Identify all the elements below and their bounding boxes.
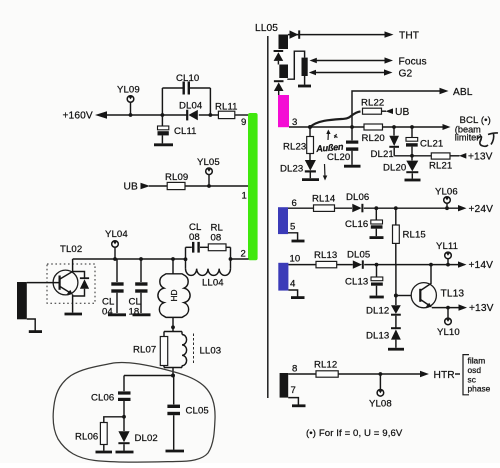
capacitor CL16 bbox=[345, 206, 384, 237]
svg-text:RL12: RL12 bbox=[314, 360, 337, 371]
svg-text:DL13: DL13 bbox=[366, 331, 389, 342]
svg-text:CL13: CL13 bbox=[345, 277, 368, 288]
testpoint YL08 bbox=[369, 372, 392, 409]
+14V output bbox=[458, 260, 493, 271]
ground bbox=[29, 330, 42, 333]
capacitor CL05 bbox=[166, 376, 209, 452]
HTR destination bracket bbox=[463, 355, 491, 395]
wire Focus output bbox=[310, 56, 427, 67]
ground pin 7 bbox=[288, 398, 298, 405]
resistor RL14 bbox=[312, 194, 336, 212]
wire +160V arrow bbox=[95, 111, 107, 119]
wire junction to CL06 branch bbox=[124, 375, 173, 377]
svg-text:+160V: +160V bbox=[63, 111, 93, 122]
diode (up) above pin 3 winding bbox=[274, 81, 284, 95]
inductor LL04 bbox=[186, 269, 231, 276]
ground bbox=[166, 450, 185, 453]
resistor RL13 bbox=[314, 250, 337, 268]
svg-text:6: 6 bbox=[292, 198, 297, 209]
svg-text:CL21: CL21 bbox=[420, 138, 443, 149]
svg-text:3: 3 bbox=[292, 117, 297, 128]
diode DL13 bbox=[366, 328, 404, 349]
svg-text:7: 7 bbox=[291, 385, 296, 396]
diode DL02 bbox=[116, 431, 158, 452]
svg-text:08: 08 bbox=[189, 232, 200, 243]
svg-text:HD: HD bbox=[169, 289, 179, 301]
svg-text:RL22: RL22 bbox=[361, 98, 384, 109]
wire pin 3 main line to BCL bbox=[289, 115, 491, 142]
+13V output from TL13 bbox=[459, 303, 494, 314]
collector rail wire to pin 2 bbox=[73, 257, 249, 261]
wire ABL output bbox=[350, 87, 473, 129]
node +160V supply row bbox=[63, 111, 249, 122]
ground bbox=[116, 451, 134, 454]
resistor RL22 bbox=[361, 98, 409, 119]
black winding (pins 8,7) bbox=[280, 364, 306, 406]
resistor RL23 bbox=[283, 127, 314, 160]
parallel CL08 / RL08 / LL04 to pin 2 bbox=[184, 222, 231, 289]
ground bbox=[302, 178, 319, 181]
curved wire to RL22 bbox=[308, 111, 361, 129]
svg-text:UB: UB bbox=[395, 107, 409, 118]
hand-drawn ST scribble bbox=[477, 133, 498, 146]
svg-text:DL05: DL05 bbox=[347, 250, 370, 261]
svg-text:HTR: HTR bbox=[434, 370, 455, 381]
svg-text:CL11: CL11 bbox=[174, 126, 197, 137]
svg-text:+13V: +13V bbox=[469, 303, 494, 314]
collector bbox=[421, 265, 432, 291]
ground bbox=[388, 348, 404, 351]
resistor RL09 bbox=[165, 172, 188, 190]
wire THT bbox=[288, 34, 385, 36]
left and right verticals bbox=[185, 247, 187, 268]
ground bbox=[96, 451, 113, 454]
svg-text:CL16: CL16 bbox=[345, 219, 368, 230]
capacitor CL10 bbox=[162, 73, 210, 115]
winding segment 1 bbox=[279, 35, 289, 50]
svg-text:RL06: RL06 bbox=[75, 432, 98, 443]
svg-text:RL23: RL23 bbox=[283, 142, 306, 153]
capacitor CL13 bbox=[345, 263, 384, 297]
transistor TL13 bbox=[411, 263, 464, 308]
diode DL20 bbox=[383, 156, 421, 180]
svg-text:DL20: DL20 bbox=[383, 163, 406, 174]
ground bbox=[108, 313, 126, 316]
svg-text:5: 5 bbox=[290, 222, 295, 233]
svg-text:YL04: YL04 bbox=[105, 229, 128, 240]
svg-text:+24V: +24V bbox=[469, 204, 494, 215]
svg-text:UB: UB bbox=[124, 182, 138, 193]
resistor RL06 bbox=[75, 417, 124, 452]
svg-text:phase: phase bbox=[468, 384, 491, 394]
svg-text:filam: filam bbox=[468, 356, 486, 366]
svg-text:RL21: RL21 bbox=[429, 161, 452, 172]
capacitor CL04 bbox=[102, 259, 126, 318]
diode DL04 bbox=[161, 101, 213, 121]
wire pin 8 row to HTR bbox=[288, 370, 460, 381]
resistor RL21 with +13V input bbox=[429, 152, 493, 172]
svg-text:DL02: DL02 bbox=[135, 433, 158, 444]
inductor LL03 bbox=[181, 332, 183, 335]
emitter bbox=[421, 300, 430, 306]
svg-text:LL03: LL03 bbox=[200, 346, 222, 357]
resistor RL11 bbox=[215, 102, 238, 119]
svg-text:LL05: LL05 bbox=[255, 23, 278, 34]
ground bbox=[154, 143, 173, 146]
ground pin 5 bbox=[288, 233, 298, 240]
svg-text:(•) For If = 0, U = 9,6V: (•) For If = 0, U = 9,6V bbox=[306, 428, 403, 439]
testpoint YL11 bbox=[436, 241, 458, 267]
blue highlight winding (pins 10,4) bbox=[278, 254, 304, 298]
svg-text:9: 9 bbox=[241, 117, 246, 128]
svg-text:10: 10 bbox=[290, 254, 301, 265]
svg-text:G2: G2 bbox=[399, 68, 413, 79]
wire pin 10 row bbox=[288, 264, 458, 266]
diode to THT bbox=[288, 30, 419, 41]
svg-text:YL09: YL09 bbox=[117, 85, 140, 96]
inductor HD bbox=[158, 257, 190, 331]
testpoint YL09 bbox=[117, 85, 140, 117]
svg-text:4: 4 bbox=[290, 279, 296, 290]
testpoint YL06 bbox=[435, 187, 458, 211]
parallel RL07 / LL03 bbox=[133, 332, 221, 378]
capacitor CL06 bbox=[91, 376, 131, 432]
svg-text:CL05: CL05 bbox=[186, 406, 209, 417]
svg-text:CL20: CL20 bbox=[327, 152, 350, 163]
svg-text:Focus: Focus bbox=[399, 56, 427, 67]
diode DL23 bbox=[280, 160, 319, 180]
svg-text:+14V: +14V bbox=[469, 260, 494, 271]
primary bus wire bbox=[267, 36, 269, 398]
ground pin 4 bbox=[288, 290, 297, 297]
testpoint YL10 bbox=[437, 306, 460, 338]
svg-text:RL07: RL07 bbox=[133, 345, 156, 356]
svg-text:DL04: DL04 bbox=[179, 101, 203, 112]
emitter with arrow bbox=[60, 287, 71, 294]
ground bbox=[370, 236, 384, 239]
svg-text:TL13: TL13 bbox=[441, 289, 465, 300]
svg-text:YL11: YL11 bbox=[436, 241, 458, 252]
focus divider block bbox=[287, 51, 311, 86]
+24V output bbox=[458, 204, 493, 215]
diode DL12 bbox=[366, 305, 401, 328]
ground TL02 emitter bbox=[65, 313, 83, 316]
diode DL05 bbox=[347, 250, 370, 269]
capacitor CL08 bbox=[192, 242, 194, 253]
svg-text:DL06: DL06 bbox=[346, 192, 369, 203]
magenta highlight winding (pin 3) bbox=[278, 95, 297, 128]
wire pin 6 row bbox=[288, 207, 459, 209]
wire lower 13V rail bbox=[394, 154, 431, 158]
svg-text:YL08: YL08 bbox=[369, 399, 392, 410]
capacitor CL21 bbox=[406, 125, 443, 156]
svg-text:2: 2 bbox=[241, 249, 246, 260]
diode (up) between windings bbox=[274, 51, 284, 65]
svg-text:TL02: TL02 bbox=[60, 244, 82, 255]
capacitor CL18 bbox=[129, 257, 151, 317]
svg-text:8: 8 bbox=[292, 364, 297, 375]
blue highlight winding (pins 6,5) bbox=[278, 198, 305, 241]
ground bbox=[405, 179, 421, 182]
svg-text:THT: THT bbox=[399, 30, 419, 41]
flyback transformer LL05 bbox=[255, 23, 278, 398]
svg-text:LL04: LL04 bbox=[202, 278, 224, 289]
svg-text:DL23: DL23 bbox=[280, 164, 303, 175]
svg-text:RL09: RL09 bbox=[165, 172, 188, 183]
svg-text:DL21: DL21 bbox=[371, 149, 394, 160]
svg-text:YL05: YL05 bbox=[197, 157, 220, 168]
winding segment 2 bbox=[279, 65, 288, 79]
svg-text:RL15: RL15 bbox=[403, 230, 426, 241]
ground bbox=[133, 313, 151, 316]
base wire bbox=[27, 282, 59, 284]
resistor RL08 bbox=[208, 244, 226, 251]
hand-drawn blob enclosure bbox=[53, 363, 215, 463]
ground bbox=[344, 165, 361, 168]
transistor TL02 bbox=[27, 244, 95, 314]
capacitor CL11 bbox=[154, 115, 197, 145]
svg-text:ABL: ABL bbox=[453, 87, 473, 98]
node UB input row (pin 1) bbox=[124, 182, 249, 193]
ground bbox=[370, 296, 384, 299]
testpoint YL04 bbox=[105, 229, 128, 261]
resistor RL15 bbox=[393, 206, 426, 264]
handwritten annotation Aussen with arrows bbox=[315, 130, 345, 181]
wire +160V horizontal bbox=[106, 114, 187, 116]
diode DL06 bbox=[346, 192, 369, 212]
green highlight bar (pins 9,1,2) bbox=[241, 113, 258, 260]
resistor RL20 bbox=[362, 124, 385, 144]
collector bbox=[60, 259, 73, 279]
svg-text:RL14: RL14 bbox=[312, 194, 336, 205]
svg-text:CL06: CL06 bbox=[91, 393, 114, 404]
protection diode in TL02 bbox=[73, 272, 85, 278]
ground bbox=[298, 85, 311, 88]
capacitor CL20 bbox=[327, 127, 361, 166]
svg-text:YL10: YL10 bbox=[437, 327, 460, 338]
footnote bbox=[306, 428, 403, 439]
connector block left of TL02 bbox=[17, 282, 42, 332]
svg-text:DL12: DL12 bbox=[366, 306, 389, 317]
svg-text:RL13: RL13 bbox=[314, 250, 337, 261]
svg-text:YL06: YL06 bbox=[435, 187, 458, 198]
svg-text:1: 1 bbox=[242, 191, 247, 202]
svg-text:RL20: RL20 bbox=[362, 133, 385, 144]
svg-text:08: 08 bbox=[211, 233, 222, 244]
svg-text:+13V: +13V bbox=[468, 152, 493, 163]
svg-text:osd: osd bbox=[468, 365, 482, 375]
diode DL21 bbox=[371, 125, 400, 160]
wire G2 output bbox=[309, 68, 413, 79]
resistor RL12 bbox=[314, 360, 338, 378]
base rail down from RL15 bbox=[394, 265, 411, 305]
testpoint YL05 bbox=[197, 157, 220, 188]
